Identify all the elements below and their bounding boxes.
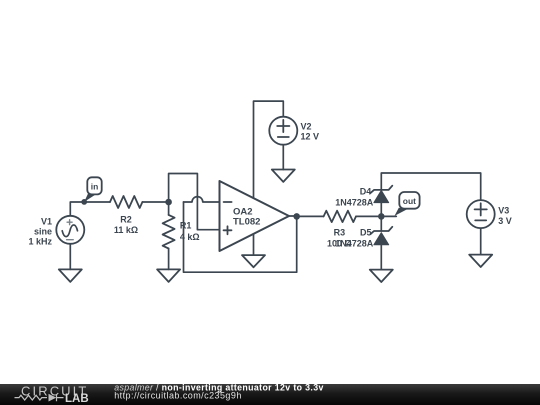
- op-amp OA2: [220, 181, 290, 251]
- wire output to R3: [297, 215, 324, 217]
- wire V1 to ground: [69, 244, 71, 270]
- svg-text:11 kΩ: 11 kΩ: [114, 225, 138, 235]
- ground below op-amp: [242, 255, 265, 267]
- wire node out to D5: [380, 216, 382, 231]
- svg-text:V2: V2: [301, 122, 312, 132]
- wire feedback bottom run: [184, 202, 297, 272]
- wire R2 to node A: [142, 201, 168, 203]
- svg-text:V1: V1: [41, 217, 52, 227]
- svg-text:R1: R1: [180, 220, 192, 230]
- svg-text:D4: D4: [360, 187, 372, 197]
- node A junction dot: [165, 199, 172, 206]
- svg-text:1 kHz: 1 kHz: [28, 236, 52, 246]
- svg-text:1N4728A: 1N4728A: [335, 239, 374, 249]
- wire op-amp output: [289, 215, 297, 217]
- wire node A to R1: [168, 202, 170, 215]
- svg-text:V3: V3: [498, 206, 509, 216]
- ground below R1: [157, 269, 180, 282]
- wire node A up and over to + input: [169, 174, 220, 230]
- svg-text:3 V: 3 V: [498, 216, 512, 226]
- svg-text:4 kΩ: 4 kΩ: [180, 232, 200, 242]
- svg-text:LAB: LAB: [65, 393, 89, 405]
- wire node out stub to flag: [381, 215, 396, 217]
- svg-text:out: out: [403, 196, 416, 206]
- ground below D5: [370, 270, 393, 282]
- wire op-amp V- pin to ground: [253, 234, 255, 255]
- diode D5 (zener): [370, 227, 392, 245]
- footer bar: [0, 384, 540, 405]
- node flag in: [81, 177, 101, 205]
- svg-text:http://circuitlab.com/c235g9h: http://circuitlab.com/c235g9h: [114, 390, 242, 400]
- wire node out to D4: [380, 203, 382, 217]
- svg-text:R3: R3: [334, 228, 346, 238]
- svg-text:R2: R2: [120, 214, 132, 224]
- ground below V2: [272, 170, 295, 182]
- wire V3 to ground: [480, 228, 482, 254]
- resistor R3: [324, 211, 356, 222]
- source V2: [269, 117, 297, 145]
- svg-text:12 V: 12 V: [301, 132, 320, 142]
- node flag out: [395, 192, 420, 216]
- source V3: [467, 200, 495, 228]
- wire feedback to - input with hop: [184, 197, 220, 202]
- wire R1 to ground: [168, 249, 170, 270]
- wire op-amp V+ pin to V2: [254, 101, 284, 198]
- resistor R1: [163, 215, 175, 249]
- logo CIRCUIT LAB: [15, 383, 89, 405]
- svg-text:sine: sine: [34, 226, 52, 236]
- wire V1 top to R2: [70, 202, 110, 216]
- node output dot: [293, 213, 300, 220]
- node out junction dot: [378, 213, 385, 220]
- diode D4 (zener): [370, 186, 392, 203]
- svg-text:TL082: TL082: [233, 216, 260, 227]
- resistor R2: [110, 196, 142, 208]
- svg-text:in: in: [91, 181, 99, 191]
- ground below V1: [59, 269, 82, 282]
- source V1: [56, 216, 84, 244]
- svg-text:D5: D5: [360, 228, 372, 238]
- wire R3 to node out: [356, 215, 381, 217]
- svg-text:1N4728A: 1N4728A: [335, 198, 374, 208]
- wire D5 to ground: [380, 245, 382, 270]
- wire D4 to top rail: [381, 173, 480, 200]
- wire V2 to ground: [282, 145, 284, 170]
- ground below V3: [469, 255, 492, 267]
